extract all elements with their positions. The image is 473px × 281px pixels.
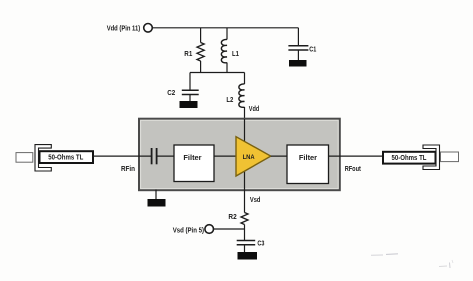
- terminal Vdd (Pin 11): [144, 24, 153, 33]
- terminal Vsd (Pin 5): [205, 225, 214, 234]
- svg-text:Filter: Filter: [183, 153, 201, 162]
- svg-text:L2: L2: [226, 95, 233, 104]
- filter box 2: [287, 145, 329, 184]
- capacitor C1: [288, 45, 308, 47]
- wire R1 top: [200, 28, 202, 43]
- ground C2: [180, 101, 198, 108]
- svg-text:Vdd: Vdd: [249, 104, 260, 113]
- wire LNA to filter2: [271, 155, 287, 157]
- ground C1: [289, 60, 307, 67]
- wire C2 top: [189, 73, 191, 90]
- svg-text:L1: L1: [232, 49, 239, 58]
- svg-text:Vdd (Pin 11): Vdd (Pin 11): [107, 23, 141, 32]
- svg-text:50-Ohms TL: 50-Ohms TL: [392, 153, 427, 162]
- ground C3: [238, 252, 258, 260]
- resistor R2: [241, 213, 248, 225]
- svg-text:50-Ohms TL: 50-Ohms TL: [48, 153, 83, 162]
- wire L1 bottom: [226, 63, 228, 73]
- wire C2 bottom: [189, 95, 191, 102]
- 50-Ohms TL right: [383, 152, 436, 164]
- wire C1 drop: [297, 28, 299, 45]
- wire L1 top: [226, 28, 228, 40]
- wire L2 to box / node Vdd: [244, 107, 246, 119]
- left connector bracket: [35, 145, 51, 171]
- svg-text:C1: C1: [309, 44, 316, 53]
- svg-text:R1: R1: [184, 49, 192, 58]
- svg-text:Vsd: Vsd: [250, 195, 261, 204]
- right connector bracket: [423, 145, 440, 170]
- svg-text:RFin: RFin: [121, 164, 135, 173]
- svg-text:R2: R2: [228, 212, 236, 221]
- svg-text:Filter: Filter: [299, 153, 317, 162]
- svg-text:Vsd (Pin 5): Vsd (Pin 5): [173, 225, 205, 234]
- amplifier module box: [139, 119, 340, 191]
- capacitor C2: [182, 89, 199, 91]
- op-amp LNA: [236, 137, 271, 176]
- capacitor C3: [237, 240, 256, 242]
- 50-Ohms TL left: [40, 151, 94, 163]
- capacitor (DC block, inside box): [151, 148, 153, 164]
- faint smudges bottom right: [371, 254, 383, 256]
- wire filter1 to LNA: [214, 155, 236, 157]
- wire RFout: [329, 155, 384, 157]
- right connector stub rect: [441, 152, 459, 162]
- wire RFin: [93, 155, 151, 157]
- wire vertical Vdd into LNA: [244, 119, 246, 146]
- wire top bus: [152, 27, 298, 29]
- wire C1 bottom: [297, 50, 299, 60]
- inductor L1: [221, 39, 227, 62]
- inductor L2: [239, 84, 245, 107]
- wire C3 bottom: [244, 245, 246, 252]
- wire middle bus: [190, 72, 245, 74]
- svg-text:LNA: LNA: [243, 154, 255, 161]
- resistor R1: [197, 43, 204, 62]
- wire R1 bottom: [200, 61, 202, 73]
- ground stub under box: [155, 190, 157, 200]
- wire R2 bottom: [244, 225, 246, 241]
- wire L2 top: [244, 73, 246, 85]
- left connector stub rect: [16, 153, 33, 163]
- wire cap to filter1: [158, 155, 175, 157]
- svg-text:C2: C2: [167, 88, 175, 97]
- filter box 1: [174, 145, 214, 182]
- ground under box: [148, 199, 166, 207]
- svg-text:C3: C3: [257, 239, 264, 248]
- wire vertical LNA to Vsd: [244, 168, 246, 213]
- wire pin5 to node: [214, 228, 245, 230]
- svg-text:RFout: RFout: [345, 164, 362, 173]
